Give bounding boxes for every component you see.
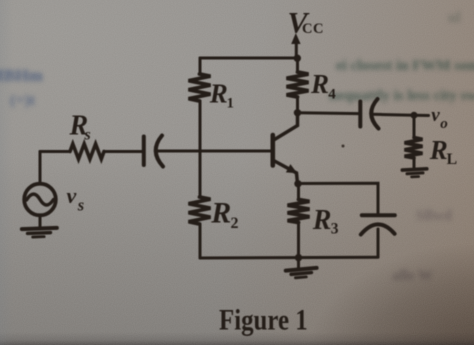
svg-text:v: v — [431, 105, 440, 126]
node ground junction — [295, 254, 302, 261]
svg-text:1: 1 — [227, 95, 235, 111]
ground (main) — [286, 258, 318, 279]
svg-text:s: s — [84, 126, 91, 143]
ground (RL) — [402, 169, 427, 178]
net vo label — [431, 105, 448, 132]
wire bottom rail — [200, 256, 378, 260]
svg-text:3: 3 — [331, 221, 339, 238]
bleed-through text top right row 1 — [336, 58, 474, 75]
VCC arrow — [291, 33, 300, 58]
capacitor C2 (output coupling) — [360, 99, 378, 129]
resistor R2 — [189, 151, 239, 258]
svg-text:L: L — [447, 151, 458, 168]
svg-text:v: v — [67, 183, 77, 208]
base bar — [270, 135, 275, 166]
svg-text:s: s — [77, 196, 84, 215]
resistor R3 — [288, 184, 339, 258]
svg-text:2: 2 — [231, 215, 239, 232]
wire collector to output cap — [298, 111, 360, 115]
collector lead — [275, 113, 298, 140]
node collector junction — [294, 109, 301, 116]
ground (vs) — [22, 215, 57, 237]
node VCC junction — [294, 55, 301, 62]
bleed-through text top right corner — [448, 10, 461, 27]
transistor Q1 — [273, 113, 298, 184]
net VCC label — [288, 6, 324, 39]
svg-text:R: R — [210, 197, 231, 230]
svg-text:R: R — [209, 78, 228, 108]
svg-text:4: 4 — [328, 87, 336, 103]
emitter lead — [275, 161, 298, 184]
wire cap to vo — [372, 113, 415, 117]
svg-text:o: o — [440, 116, 448, 132]
wire base — [158, 150, 271, 153]
svg-text:R: R — [310, 69, 329, 99]
bleed-through text bottom right — [392, 268, 433, 285]
resistor Rs — [40, 111, 143, 160]
emitter arrowhead — [286, 164, 297, 173]
wire vo stub — [414, 114, 429, 117]
node vo junction — [411, 112, 418, 119]
svg-text:Figure 1: Figure 1 — [219, 302, 308, 336]
bleed-through text right middle — [416, 208, 452, 225]
bleed-through text left edge row 2 — [10, 92, 35, 110]
svg-text:CC: CC — [302, 21, 324, 37]
wire top rail — [200, 57, 298, 60]
source vs — [24, 152, 84, 216]
capacitor C3 (emitter bypass) — [361, 215, 395, 257]
resistor R4 — [287, 58, 337, 113]
resistor R1 — [189, 58, 235, 151]
resistor RL — [405, 115, 458, 168]
capacitor C1 (input coupling) — [144, 136, 163, 167]
bleed-through text top right row 2 — [329, 88, 474, 105]
svg-text:R: R — [312, 205, 332, 236]
node emitter junction — [294, 180, 301, 187]
wire emitter to bypass cap — [298, 183, 378, 213]
bleed-through text left edge row 1 — [0, 66, 43, 86]
svg-text:R: R — [429, 135, 448, 165]
speck — [342, 145, 345, 148]
